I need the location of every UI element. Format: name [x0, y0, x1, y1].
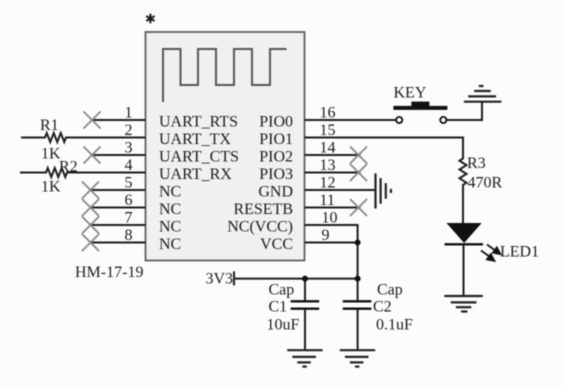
svg-text:KEY: KEY — [394, 85, 427, 102]
svg-text:PIO3: PIO3 — [259, 166, 293, 183]
svg-text:4: 4 — [125, 157, 133, 174]
svg-text:12: 12 — [320, 175, 336, 192]
svg-text:7: 7 — [125, 210, 133, 227]
svg-text:13: 13 — [320, 157, 336, 174]
svg-text:NC: NC — [159, 184, 181, 201]
svg-text:R1: R1 — [40, 117, 59, 134]
svg-text:15: 15 — [320, 122, 336, 139]
svg-text:PIO2: PIO2 — [259, 149, 293, 166]
svg-text:PIO0: PIO0 — [259, 114, 293, 131]
svg-text:2: 2 — [125, 122, 133, 139]
svg-text:1: 1 — [125, 105, 133, 122]
svg-text:3V3: 3V3 — [206, 271, 234, 288]
svg-text:GND: GND — [258, 184, 293, 201]
svg-text:14: 14 — [320, 140, 336, 157]
svg-text:C1: C1 — [269, 299, 288, 316]
svg-text:LED1: LED1 — [500, 244, 539, 261]
svg-text:PIO1: PIO1 — [259, 131, 293, 148]
svg-text:NC: NC — [159, 201, 181, 218]
svg-text:10: 10 — [322, 210, 338, 227]
svg-text:9: 9 — [322, 227, 330, 244]
svg-text:NC: NC — [159, 236, 181, 253]
svg-text:5: 5 — [125, 175, 133, 192]
svg-text:HM-17-19: HM-17-19 — [75, 264, 143, 281]
svg-text:NC: NC — [159, 219, 181, 236]
svg-text:Cap: Cap — [377, 282, 403, 299]
svg-text:0.1uF: 0.1uF — [376, 317, 413, 334]
svg-text:UART_RX: UART_RX — [159, 166, 232, 183]
svg-text:Cap: Cap — [269, 282, 295, 299]
svg-text:UART_RTS: UART_RTS — [159, 114, 238, 131]
svg-text:470R: 470R — [468, 175, 503, 192]
svg-text:1K: 1K — [41, 146, 61, 163]
svg-text:C2: C2 — [373, 299, 392, 316]
svg-text:8: 8 — [125, 227, 133, 244]
svg-text:10uF: 10uF — [267, 317, 300, 334]
svg-text:6: 6 — [125, 192, 133, 209]
svg-text:RESETB: RESETB — [233, 201, 293, 218]
svg-text:VCC: VCC — [260, 236, 293, 253]
svg-text:UART_TX: UART_TX — [159, 131, 231, 148]
svg-text:11: 11 — [320, 192, 335, 209]
svg-text:1K: 1K — [41, 179, 61, 196]
svg-text:R3: R3 — [467, 155, 486, 172]
svg-text:UART_CTS: UART_CTS — [159, 149, 239, 166]
svg-text:16: 16 — [320, 105, 336, 122]
svg-text:R2: R2 — [59, 159, 78, 176]
svg-text:3: 3 — [125, 140, 133, 157]
svg-text:NC(VCC): NC(VCC) — [227, 219, 293, 236]
